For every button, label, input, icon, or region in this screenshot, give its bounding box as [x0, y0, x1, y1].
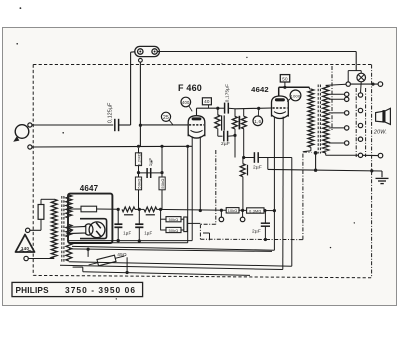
terminal antenna A1 — [28, 123, 32, 127]
selector contact A4 — [345, 126, 349, 130]
annotation 1.6 — [253, 110, 263, 126]
capacitor C4 parallel — [222, 115, 225, 130]
svg-text:40: 40 — [204, 99, 210, 104]
rectifier heater path — [80, 219, 107, 239]
tap 1 — [326, 84, 346, 85]
resistor R5 — [240, 158, 247, 210]
wire HT 3 — [69, 262, 292, 266]
annotation 400 — [181, 97, 192, 111]
capacitor C8 1uF — [114, 209, 131, 242]
bus right end — [263, 209, 274, 212]
wire lamp elbow — [348, 71, 361, 82]
warning triangle 140 — [16, 235, 35, 253]
node bus 221 — [220, 209, 223, 212]
pickup transducer P1 — [13, 125, 29, 142]
svg-text:1,6: 1,6 — [254, 119, 261, 124]
resistor R4 — [215, 108, 220, 136]
label 4642 — [251, 85, 269, 94]
svg-text:10kΩ: 10kΩ — [228, 209, 238, 213]
svg-text:2µF: 2µF — [221, 141, 230, 147]
transformer T3 secondary b — [66, 225, 72, 238]
chassis dashed frame left — [32, 65, 34, 276]
tap 6 — [329, 142, 347, 144]
svg-text:50kΩ: 50kΩ — [169, 229, 179, 233]
terminal small below fuse link — [139, 58, 143, 62]
fuse F1 — [38, 199, 54, 230]
terminal antenna A2 — [28, 145, 32, 149]
svg-text:0,3MΩ: 0,3MΩ — [249, 209, 261, 213]
valve B2 leg right — [282, 117, 284, 270]
transformer T2 core — [318, 85, 320, 154]
wire HT 4 — [60, 265, 283, 269]
volume control right bar — [181, 217, 187, 232]
resistor box R10 50kOhm — [161, 217, 181, 222]
wire C1 to fuse link — [119, 52, 136, 125]
transformer T3 core — [62, 196, 64, 262]
ground symbol — [376, 178, 389, 183]
tap 7 bottom — [326, 153, 361, 155]
svg-text:50kΩ: 50kΩ — [160, 178, 165, 188]
chassis dashed frame top — [33, 64, 371, 66]
capacitor C2 1uF — [139, 158, 163, 178]
valve B2 — [272, 96, 289, 119]
svg-text:4642: 4642 — [251, 85, 269, 94]
svg-text:1µF: 1µF — [144, 231, 152, 236]
svg-text:1µF: 1µF — [148, 158, 153, 167]
resistor box 40 — [202, 98, 211, 108]
transformer T1 winding right — [241, 109, 246, 158]
selector contact B2 — [358, 108, 362, 112]
selector contact A3 — [345, 111, 349, 115]
capacitor C1 0,125uF — [108, 102, 119, 131]
node bus 160 — [157, 208, 227, 211]
valve B1 plate wire — [197, 108, 218, 116]
wire input bottom — [32, 145, 192, 148]
terminal gramo G1 — [219, 210, 224, 222]
transformer T2 secondary — [323, 86, 329, 154]
transformer T3 primary — [51, 199, 57, 258]
svg-text:0,2MΩ: 0,2MΩ — [137, 153, 142, 166]
contact lamp feed — [346, 82, 350, 86]
wire HT 1 — [72, 246, 274, 250]
mech link dash-dot — [200, 150, 311, 240]
terminal mains M2 — [24, 256, 54, 260]
tap 3 — [329, 98, 347, 100]
svg-text:50kΩ: 50kΩ — [169, 218, 179, 222]
rectifier valve B3 — [67, 222, 105, 238]
capacitor C7 2uF — [252, 211, 270, 242]
valve B2 leg left — [273, 117, 276, 251]
transformer T3 secondary a — [66, 195, 72, 218]
wire mains live — [348, 83, 378, 87]
resistor R2 50kOhm — [135, 177, 141, 209]
tap 4 — [329, 112, 347, 114]
annotation 25 — [161, 112, 172, 124]
wire grid to valve B1 — [140, 124, 188, 126]
branch x162 top — [160, 146, 163, 177]
wire earth drop from C6 wire — [267, 158, 269, 170]
wire earth bus — [268, 169, 382, 172]
fuse F2 — [69, 206, 118, 212]
svg-text:50: 50 — [282, 76, 288, 81]
node anode junction — [216, 107, 219, 110]
chassis dashed frame right — [371, 65, 373, 278]
resistor R1 0,2MOhm — [135, 148, 141, 166]
lamp LA1 — [357, 73, 366, 82]
valve B2 plate wire — [279, 86, 310, 96]
selector contact A1 — [345, 92, 349, 96]
selector contact B4 — [358, 137, 362, 141]
switch-unit dashed edge — [331, 66, 333, 130]
branch to volume control — [160, 209, 162, 230]
node bus 242 — [239, 209, 247, 212]
wire grid vertical — [139, 62, 142, 146]
svg-text:400: 400 — [182, 100, 190, 105]
wire earth drop — [381, 171, 383, 177]
selector contact A2 — [345, 97, 349, 101]
valve B1 — [188, 116, 205, 138]
annotation 1000 — [287, 90, 301, 102]
resistor R12 450 diagonal — [88, 249, 127, 273]
speaker LS1 20W — [373, 108, 390, 135]
wire heater 1 — [69, 239, 192, 242]
valve B1 leg right — [199, 136, 202, 212]
svg-text:3750 - 3950 06: 3750 - 3950 06 — [65, 285, 136, 295]
capacitor C9 1uF — [135, 209, 152, 242]
resistor R3 50kOhm — [159, 177, 165, 209]
svg-text:0,175µF: 0,175µF — [225, 84, 230, 102]
rectifier unit box 4647 — [68, 194, 112, 243]
label 4647 — [80, 184, 99, 193]
wire input top — [32, 124, 113, 126]
resistor box R11 50kOhm — [161, 227, 181, 232]
wire HT 2 — [69, 248, 272, 252]
wire heater 2 — [72, 242, 188, 244]
terminal gramo G2 — [240, 210, 245, 221]
selector bar dashed left — [355, 88, 357, 157]
svg-text:4647: 4647 — [80, 184, 99, 193]
nameplate PHILIPS 3750-3950 06 — [12, 282, 143, 296]
transformer T1 winding left — [232, 109, 237, 158]
tap 5 — [329, 127, 347, 129]
specks — [16, 7, 355, 299]
svg-text:1000: 1000 — [291, 93, 301, 98]
wire winding to C6 — [242, 156, 245, 159]
resistor box 50 — [280, 75, 289, 88]
wire volume to switch link — [187, 222, 200, 224]
label F460 — [178, 83, 202, 93]
svg-text:F 460: F 460 — [178, 83, 202, 93]
terminal output T2 — [378, 153, 383, 158]
svg-text:20W.: 20W. — [373, 130, 387, 136]
wire heater return — [73, 267, 250, 275]
fuse link S1 — [135, 46, 160, 56]
mains switch S2 — [314, 151, 318, 172]
wire volume drop — [203, 233, 210, 240]
transformer T2 primary — [303, 87, 314, 151]
wire right long vertical — [291, 158, 293, 267]
selector contact B5 — [358, 153, 362, 157]
capacitor C3 0,175uF — [218, 84, 235, 114]
node bus left — [117, 208, 120, 211]
svg-text:50kΩ: 50kΩ — [137, 178, 142, 188]
valve B1 leg left — [191, 136, 193, 240]
terminal mains M1 — [26, 228, 42, 232]
wire fuse to mains switch column — [157, 52, 356, 71]
svg-text:0,125µF: 0,125µF — [108, 102, 114, 123]
wire grid2 — [235, 107, 272, 110]
resistor R6 — [122, 207, 144, 215]
svg-text:2µF: 2µF — [253, 165, 262, 171]
transformer T1 core — [238, 116, 240, 130]
selector contact B1 — [358, 93, 362, 97]
selector contact B3 — [358, 123, 362, 127]
resistor box R8 10kOhm — [226, 208, 239, 214]
svg-text:1µF: 1µF — [123, 231, 131, 236]
resistor R7 — [144, 207, 157, 215]
wire grid-leak drop — [187, 146, 189, 243]
capacitor C5 2uF — [218, 131, 237, 147]
svg-text:2µF: 2µF — [252, 229, 261, 235]
tap 2 — [329, 93, 347, 95]
svg-text:25: 25 — [163, 115, 169, 121]
resistor box R9 0,3MOhm — [247, 208, 264, 214]
capacitor C6 2uF — [244, 152, 292, 170]
selector bar dashed right — [365, 88, 367, 157]
wire R1-R2 — [137, 166, 140, 177]
wire selector out — [363, 154, 379, 156]
chassis dashed frame bottom — [33, 275, 371, 277]
svg-text:PHILIPS: PHILIPS — [16, 286, 50, 295]
wire lamp to contact B1 — [360, 82, 363, 93]
svg-text:45Ω: 45Ω — [117, 252, 127, 258]
selector contact A5 — [345, 141, 349, 145]
terminal mains T1 — [378, 82, 383, 87]
transformer T3 secondary c — [66, 243, 72, 261]
